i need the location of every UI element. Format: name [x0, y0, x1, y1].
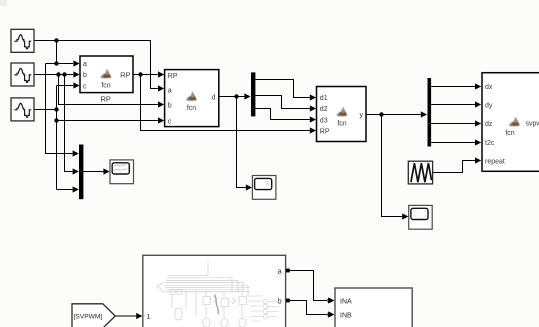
- svg-text:dx: dx: [485, 84, 493, 91]
- svg-text:1: 1: [147, 314, 151, 321]
- svg-text:y: y: [360, 112, 364, 119]
- wire: subsystem a to INA: [290, 271, 327, 301]
- block: MATLAB Function fcn1 "RP": [80, 56, 133, 93]
- svg-text:svpwm: svpwm: [526, 120, 539, 127]
- svg-text:d3: d3: [320, 117, 328, 124]
- svg-text:c: c: [83, 83, 87, 90]
- block: Repeating Sequence (triangle wave): [408, 161, 432, 184]
- goto-from tag [SVPWM]: [72, 304, 115, 327]
- wire: demux3 out3 to svpwm dz: [431, 123, 475, 125]
- demux Demux2 (3 outputs): [251, 72, 255, 116]
- port nub: subsystem output a: [286, 269, 290, 273]
- svg-text:b: b: [278, 298, 282, 305]
- wire: fcn1 RP output to fcn2 RP input, branch down to fcn3 RP input: [133, 75, 310, 131]
- port nub: driver block INA input: [328, 299, 332, 303]
- block: Scope1: [110, 160, 134, 184]
- wire: demux2 out2 to fcn3 d2: [255, 96, 309, 109]
- svg-text:repeat: repeat: [485, 158, 505, 165]
- svg-text:d2: d2: [320, 106, 328, 113]
- wire: Sine1 output to fcn2 input a (with branches): [34, 41, 158, 154]
- svg-text:a: a: [83, 61, 87, 68]
- svg-text:dz: dz: [485, 121, 493, 128]
- svg-text:fcn: fcn: [187, 105, 196, 112]
- svg-text:a: a: [278, 269, 282, 276]
- mux Mux1 (3 inputs): [79, 145, 83, 200]
- wire: demux2 out3 to fcn3 d3: [255, 109, 309, 120]
- wire: subsystem b to INB: [290, 301, 327, 315]
- block: Scope2: [252, 176, 276, 200]
- block: Sine Wave source 2: [11, 63, 34, 86]
- block: inverter subsystem (with internal circuit icon): [143, 255, 286, 327]
- svg-text:fcn: fcn: [505, 130, 514, 137]
- svg-text:fcn: fcn: [337, 121, 346, 128]
- wire: demux2 out1 to fcn3 d1: [255, 80, 309, 98]
- svg-text:b: b: [168, 103, 172, 110]
- block: driver block with INA / INB inputs: [335, 288, 412, 327]
- block: MATLAB Function svpwm: [482, 73, 539, 172]
- svg-text:b: b: [83, 72, 87, 79]
- wire: demux3 out2 to svpwm dy: [431, 104, 475, 106]
- svg-text:t2c: t2c: [485, 140, 495, 147]
- svg-text:d1: d1: [320, 95, 328, 102]
- svg-text:RP: RP: [320, 129, 330, 136]
- svg-text:d: d: [212, 94, 216, 101]
- svg-text:INA: INA: [340, 299, 352, 306]
- svg-text:RP: RP: [120, 70, 130, 79]
- port nub: driver block INB input: [328, 313, 332, 317]
- port nub: subsystem output b: [286, 299, 290, 303]
- wire: fcn3 y output to demux3, branch down to scope3: [366, 115, 421, 217]
- wire: Sine2 output to fcn1 input b (with branches): [34, 75, 158, 172]
- wire: demux3 out4 to svpwm t2c: [431, 142, 475, 144]
- svg-text:RP: RP: [100, 94, 110, 103]
- svg-text:[SVPWM]: [SVPWM]: [74, 314, 103, 321]
- wire: mux1 output to scope1: [83, 171, 103, 173]
- wire: repeating sequence output to svpwm repeat input: [433, 161, 475, 173]
- svg-text:RP: RP: [168, 73, 178, 80]
- wire: fcn2 d output to demux2, branch down to scope2: [219, 97, 246, 188]
- svg-text:c: c: [168, 118, 172, 125]
- block: MATLAB Function fcn2: [165, 70, 219, 127]
- wire: Sine3 output to fcn1 input c (with branches): [34, 86, 158, 190]
- block: MATLAB Function fcn3: [317, 87, 367, 142]
- block: Scope3: [409, 205, 433, 229]
- block: Sine Wave source 1: [11, 29, 34, 52]
- demux Demux3 (4 outputs): [428, 78, 432, 147]
- wire: demux3 out1 to svpwm dx: [431, 86, 475, 88]
- block: Sine Wave source 3: [11, 98, 34, 121]
- svg-text:INB: INB: [340, 313, 352, 320]
- wire: SVPWM tag to inverter subsystem input 1: [115, 315, 136, 317]
- svg-text:a: a: [168, 87, 172, 94]
- svg-text:dy: dy: [485, 103, 493, 110]
- svg-text:fcn: fcn: [101, 83, 110, 90]
